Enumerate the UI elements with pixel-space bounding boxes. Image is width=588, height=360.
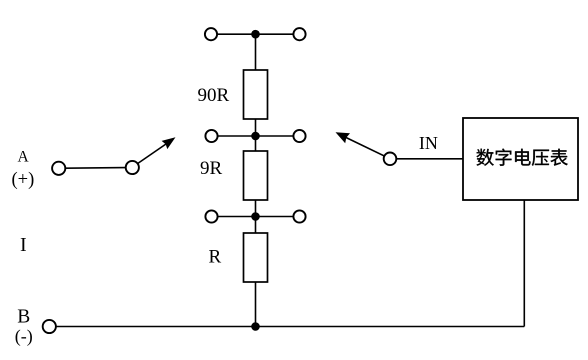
wire voltmeter to bus bbox=[523, 199, 525, 327]
terminal circle top-right bbox=[293, 28, 305, 40]
svg-text:(-): (-) bbox=[15, 326, 33, 347]
switch S2 arm wire bbox=[346, 138, 384, 157]
switch S2 arrowhead bbox=[336, 132, 351, 143]
svg-text:90R: 90R bbox=[198, 85, 230, 106]
label I bbox=[20, 234, 27, 256]
label 数字电压表 bbox=[477, 149, 568, 166]
svg-text:(+): (+) bbox=[12, 170, 35, 190]
label 9R bbox=[200, 158, 223, 179]
wire R1 to row2 bbox=[255, 119, 257, 151]
terminal circle row2-right bbox=[293, 130, 305, 142]
svg-text:IN: IN bbox=[419, 133, 438, 153]
switch S1 arrowhead bbox=[162, 137, 176, 149]
terminal circle top-left bbox=[205, 28, 217, 40]
junction node top bbox=[251, 30, 260, 39]
svg-text:R: R bbox=[209, 247, 222, 268]
resistor R2 body bbox=[244, 151, 268, 200]
label 90R bbox=[198, 85, 230, 106]
switch S2 pole circle bbox=[384, 153, 397, 166]
terminal circle row3-right bbox=[293, 210, 305, 222]
wire row2 tap bbox=[217, 135, 294, 137]
wire top to R1 bbox=[255, 34, 257, 70]
svg-text:A: A bbox=[18, 149, 30, 166]
svg-text:B: B bbox=[17, 307, 30, 328]
switch S1 pole circle bbox=[126, 161, 139, 174]
terminal circle row3-left bbox=[205, 210, 217, 222]
junction node row3 bbox=[251, 212, 260, 221]
terminal circle row2-left bbox=[205, 130, 217, 142]
label B bbox=[17, 307, 30, 328]
wire IN to voltmeter bbox=[397, 158, 464, 160]
label (-) bbox=[15, 326, 33, 347]
wire R2 to row3 bbox=[255, 200, 257, 233]
switch S1 link wire bbox=[65, 167, 125, 170]
wire row3 tap bbox=[217, 216, 294, 218]
terminal circle B bbox=[43, 320, 56, 333]
junction node row2 bbox=[251, 132, 260, 141]
wire R3 to bottom bus bbox=[255, 282, 257, 327]
svg-text:I: I bbox=[20, 234, 27, 256]
terminal circle A bbox=[52, 162, 65, 175]
wire top tap row bbox=[217, 33, 294, 35]
resistor R1 body bbox=[244, 70, 268, 119]
label (+) bbox=[12, 170, 35, 190]
voltmeter box U1 bbox=[463, 118, 578, 200]
label A bbox=[18, 149, 30, 166]
label IN bbox=[419, 133, 438, 153]
svg-text:9R: 9R bbox=[200, 158, 223, 179]
label R bbox=[209, 247, 222, 268]
wire bottom bus bbox=[56, 326, 524, 328]
switch S1 arm wire bbox=[138, 144, 166, 164]
junction node bottom bbox=[251, 322, 260, 331]
resistor R3 body bbox=[244, 233, 268, 282]
